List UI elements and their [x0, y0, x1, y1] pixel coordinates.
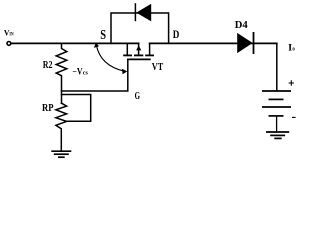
svg-text:R2: R2 [43, 60, 53, 71]
battery minus sign [292, 116, 296, 118]
diode D4 triangle [237, 33, 253, 53]
curved arrow head top [94, 43, 99, 48]
mosfet channel dash D [145, 54, 154, 56]
mosfet gate plate [127, 58, 150, 60]
body diode cathode bar [134, 3, 136, 21]
svg-text:IN: IN [9, 32, 13, 37]
mosfet channel dash S [123, 54, 132, 56]
curved arrow S to G [96, 45, 124, 72]
mosfet channel dash body [134, 54, 143, 56]
svg-text:o: o [292, 46, 294, 53]
terminal Vin [7, 42, 11, 46]
wire gate [62, 59, 128, 91]
body diode triangle [136, 4, 151, 22]
mosfet VT source stub [126, 43, 128, 54]
svg-text:D: D [173, 27, 180, 41]
svg-text:S: S [100, 28, 106, 43]
wire main S-side [11, 42, 139, 44]
wire RP wiper [62, 95, 91, 122]
resistor R2 [56, 43, 67, 103]
body-diode loop wire [111, 13, 169, 43]
svg-text:−V: −V [72, 66, 83, 76]
battery plus sign [289, 80, 294, 85]
svg-text:VT: VT [152, 62, 163, 73]
wire D-side [150, 42, 277, 44]
battery plates [262, 91, 291, 116]
svg-text:G: G [135, 91, 141, 102]
wire right drop to battery [276, 43, 278, 90]
svg-text:RP: RP [42, 102, 54, 114]
diode D4 cathode bar [253, 32, 255, 54]
svg-text:cs: cs [83, 71, 89, 77]
mosfet VT drain stub [149, 43, 151, 54]
svg-text:D4: D4 [235, 20, 248, 31]
ground right [266, 132, 289, 138]
mosfet VT body stub [138, 43, 140, 54]
battery bottom lead [276, 116, 278, 131]
mosfet body arrow [136, 45, 141, 50]
potentiometer RP [56, 103, 67, 151]
curved arrow head bottom [122, 69, 127, 75]
ground left [51, 151, 71, 157]
